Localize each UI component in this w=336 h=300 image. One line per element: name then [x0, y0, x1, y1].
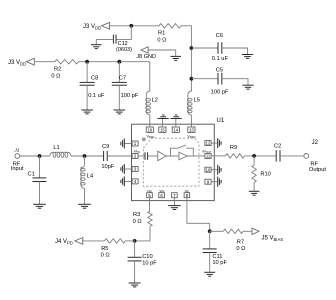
- svg-text:J3 VDD: J3 VDD: [83, 24, 101, 30]
- node C1 junction: [38, 154, 42, 158]
- wire pin8 to node: [187, 198, 210, 232]
- wire C10 to ground: [134, 261, 136, 283]
- svg-text:14: 14: [173, 127, 178, 132]
- node C10 junction: [133, 239, 137, 243]
- node C11 junction: [208, 229, 212, 233]
- wire R5 to node: [125, 240, 134, 242]
- wire C6 to ground: [222, 48, 248, 55]
- U1 inner dashed boundary: [143, 138, 199, 186]
- svg-text:R3: R3: [133, 212, 140, 218]
- svg-text:100 pF: 100 pF: [121, 93, 139, 99]
- ground pin4: [121, 176, 124, 186]
- connector J2: [304, 154, 309, 159]
- inductor L5: [188, 91, 192, 115]
- ground pin7: [168, 206, 181, 210]
- svg-text:Input: Input: [11, 166, 24, 172]
- wire L2 to pin16: [149, 115, 151, 127]
- svg-text:R10: R10: [260, 172, 270, 178]
- inductor L1: [50, 152, 71, 156]
- svg-text:(0603): (0603): [116, 47, 132, 53]
- svg-text:J4 VPD: J4 VPD: [55, 239, 73, 245]
- wire R7 to J5: [243, 230, 252, 232]
- svg-text:C6: C6: [216, 33, 223, 39]
- resistor R9: [226, 154, 245, 158]
- wire pin4 stub: [124, 180, 131, 182]
- resistor R7: [223, 229, 243, 233]
- svg-text:J5 VBIAS: J5 VBIAS: [262, 236, 284, 242]
- wire top VDD rail: [109, 26, 191, 42]
- svg-text:0 Ω: 0 Ω: [133, 219, 142, 225]
- wire C8 branch: [86, 62, 88, 83]
- ground R10: [249, 191, 260, 195]
- svg-text:13: 13: [189, 127, 194, 132]
- svg-text:C12: C12: [118, 41, 128, 47]
- capacitor C9: [103, 151, 105, 161]
- svg-text:VDD1: VDD1: [147, 134, 156, 139]
- node C8 junction: [85, 60, 89, 64]
- svg-text:L2: L2: [152, 98, 158, 104]
- ground pin10: [218, 165, 221, 175]
- resistor R10: [253, 156, 255, 165]
- ground pin12: [218, 138, 221, 148]
- svg-text:R2: R2: [54, 66, 61, 72]
- wire C11 to ground: [209, 253, 211, 273]
- U1 amp stage 2: [179, 152, 187, 160]
- wire C2 to J2: [280, 155, 304, 157]
- svg-text:10 pF: 10 pF: [212, 260, 227, 266]
- wire R3 to node: [135, 227, 150, 241]
- svg-text:R9: R9: [230, 145, 237, 151]
- op-amp U1 outer box: [132, 124, 215, 200]
- wire C6 row: [191, 47, 218, 49]
- pin 1: [132, 141, 138, 146]
- capacitor C5: [217, 73, 219, 85]
- pin 16: [146, 127, 153, 132]
- wire C7 branch: [118, 62, 120, 83]
- wire pin9 stub: [214, 181, 217, 183]
- wire interstage: [166, 155, 179, 157]
- wire pin1 stub: [124, 143, 131, 145]
- capacitor C12: [115, 35, 117, 44]
- svg-text:C2: C2: [274, 143, 281, 149]
- svg-text:0.1 uF: 0.1 uF: [88, 93, 105, 99]
- pin 4: [132, 179, 138, 184]
- capacitor C6: [217, 42, 219, 54]
- node R10 junction: [252, 154, 256, 158]
- svg-text:0 Ω: 0 Ω: [157, 38, 166, 44]
- svg-text:C8: C8: [91, 75, 98, 81]
- svg-text:J1: J1: [13, 147, 19, 153]
- wire C7 to ground: [118, 85, 120, 110]
- U1 input cap: [138, 155, 145, 157]
- ground L4: [78, 204, 91, 208]
- svg-text:10 pF: 10 pF: [142, 260, 157, 266]
- svg-text:11: 11: [206, 154, 211, 159]
- wire C5 to ground: [222, 79, 248, 86]
- node top VDD junction: [129, 24, 133, 28]
- wire VDD vertical rail right: [190, 42, 192, 91]
- svg-text:C5: C5: [216, 68, 223, 74]
- wire L5 to pin13: [190, 115, 192, 127]
- svg-text:R5: R5: [101, 246, 108, 252]
- wire mid VDD rail: [35, 62, 150, 92]
- resistor R3: [148, 211, 152, 227]
- svg-text:0 Ω: 0 Ω: [236, 246, 245, 252]
- wire L1 to C9: [71, 155, 104, 157]
- wire R10 to ground: [253, 183, 255, 192]
- pin 15: [159, 127, 166, 132]
- ground C11: [204, 272, 215, 276]
- resistor R2: [55, 60, 79, 64]
- inductor L4: [81, 156, 85, 188]
- svg-text:R1: R1: [158, 31, 165, 37]
- wire pin3 stub: [124, 168, 131, 170]
- svg-text:J2: J2: [312, 140, 319, 146]
- wire pin15 stub: [161, 119, 163, 128]
- svg-text:0 Ω: 0 Ω: [51, 74, 60, 80]
- node C6 junction: [190, 46, 194, 50]
- svg-text:0.1 uF: 0.1 uF: [212, 56, 229, 62]
- wire pin11 to R9: [214, 155, 225, 157]
- wire node to R7: [210, 230, 224, 232]
- wire J8 to ground: [148, 50, 176, 56]
- svg-text:12: 12: [206, 141, 211, 146]
- ground C10: [129, 283, 141, 287]
- wire pin10 stub: [214, 169, 217, 171]
- pin 10: [205, 167, 211, 172]
- wire C8 to ground: [86, 85, 88, 110]
- ground C6: [242, 55, 253, 59]
- pin 13: [188, 127, 195, 132]
- svg-text:C10: C10: [142, 254, 152, 260]
- U1 amp stage 1: [148, 155, 158, 157]
- wire C5 row: [191, 78, 218, 80]
- svg-text:L1: L1: [53, 145, 59, 151]
- ground pin15: [158, 115, 169, 119]
- svg-text:16: 16: [147, 127, 152, 132]
- wire pin14 stub: [175, 119, 177, 128]
- wire C1 branch: [39, 156, 41, 178]
- ground J8: [170, 56, 181, 60]
- wire pin12 stub: [214, 142, 217, 144]
- svg-text:C7: C7: [119, 75, 126, 81]
- wire C12 branch: [116, 26, 131, 40]
- ground pin9: [218, 177, 221, 187]
- svg-text:15: 15: [160, 127, 165, 132]
- svg-text:10: 10: [206, 167, 211, 172]
- pin 12: [205, 141, 211, 146]
- wire C12 to ground: [96, 38, 113, 40]
- wire C11 branch: [209, 231, 211, 249]
- wire C9 to pin2: [107, 155, 131, 157]
- pin 7: [172, 193, 178, 198]
- ground pin14: [171, 115, 182, 119]
- svg-text:C11: C11: [212, 254, 222, 260]
- resistor R5: [104, 239, 125, 243]
- svg-text:C9: C9: [102, 144, 109, 150]
- svg-text:L4: L4: [87, 174, 93, 180]
- node C5 junction: [190, 77, 194, 81]
- capacitor C8: [80, 81, 95, 83]
- svg-text:U1: U1: [217, 118, 225, 124]
- svg-text:J8 GND: J8 GND: [136, 54, 156, 60]
- ground C12: [91, 45, 102, 49]
- ground pin1: [121, 139, 124, 149]
- wire C10 branch: [134, 241, 136, 257]
- resistor R1: [159, 24, 181, 28]
- ground C1: [33, 204, 46, 208]
- wire J4 to R5: [82, 240, 104, 242]
- node C7 junction: [117, 60, 121, 64]
- wire pin5 to R3: [149, 198, 151, 211]
- U1 pin1 marker: [142, 138, 146, 142]
- svg-text:100 pF: 100 pF: [211, 90, 229, 96]
- wire L4 to ground: [84, 188, 86, 204]
- capacitor C7: [112, 81, 127, 83]
- capacitor C2: [275, 150, 277, 161]
- svg-text:Output: Output: [309, 167, 326, 173]
- capacitor C11: [203, 248, 217, 250]
- wire J1 to L1: [20, 155, 50, 157]
- svg-text:R7: R7: [237, 240, 244, 246]
- connector J8 GND: [141, 47, 148, 53]
- svg-text:L5: L5: [194, 98, 200, 104]
- svg-text:0 Ω: 0 Ω: [101, 252, 110, 258]
- wire pin7 stub: [173, 198, 175, 206]
- connector J4: [75, 238, 83, 245]
- svg-text:10pF: 10pF: [101, 164, 114, 170]
- connector J3 top: [102, 22, 110, 29]
- node L4 junction: [83, 154, 87, 158]
- ground C7: [114, 110, 126, 114]
- pin 9: [205, 179, 211, 184]
- ground pin3: [121, 164, 124, 174]
- ground C8: [81, 110, 93, 114]
- ground C5: [242, 85, 253, 89]
- wire C1 to ground: [39, 182, 41, 205]
- wire R9 to C2: [245, 155, 277, 157]
- svg-text:J3 VDD: J3 VDD: [8, 60, 26, 66]
- capacitor C1: [32, 177, 46, 179]
- wire amp2 to pin11: [187, 155, 205, 157]
- svg-text:C1: C1: [28, 171, 35, 177]
- connector J5: [252, 228, 259, 234]
- pin 3: [132, 167, 138, 172]
- inductor L2: [146, 91, 150, 115]
- pin 14: [172, 127, 179, 132]
- connector J3 mid: [26, 58, 34, 65]
- capacitor C10: [128, 256, 142, 258]
- U1 bypass switch path: [171, 148, 194, 156]
